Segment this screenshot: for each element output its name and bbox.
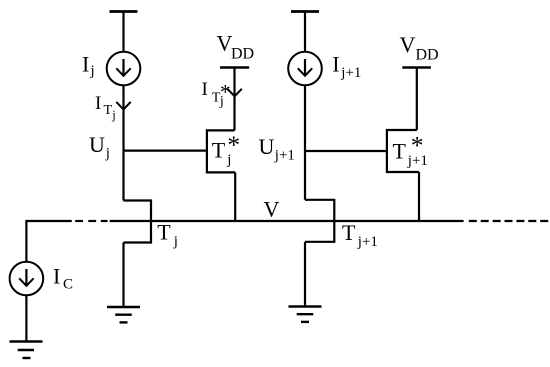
svg-text:U: U	[89, 132, 105, 157]
svg-text:DD: DD	[416, 47, 439, 64]
svg-text:T: T	[212, 138, 226, 163]
label I_j	[82, 52, 95, 80]
bus wire node V (main solid segment)	[110, 220, 464, 222]
wire: bus V down to I_C	[25, 220, 27, 262]
ground (under T_j+1)	[289, 307, 322, 322]
current arrow I_Tj*	[227, 89, 241, 97]
label T_j	[157, 220, 178, 250]
svg-text:j: j	[111, 108, 115, 122]
transistor T_j+1	[305, 200, 334, 242]
svg-text:T: T	[157, 220, 171, 245]
current source I_j+1	[288, 52, 322, 86]
label I_C	[53, 264, 73, 293]
svg-text:j+1: j+1	[357, 234, 378, 250]
svg-text:T: T	[104, 103, 113, 118]
svg-text:I: I	[332, 52, 339, 77]
transistor T_j+1*	[387, 130, 419, 172]
current arrow I_Tj	[116, 102, 130, 110]
wire: T_j+1* source to bus V	[418, 172, 420, 221]
svg-text:I: I	[82, 52, 89, 77]
svg-text:I: I	[95, 93, 101, 114]
node label U_j	[89, 132, 110, 162]
svg-text:V: V	[400, 32, 416, 57]
wire: T_j+1 source to ground	[304, 242, 306, 307]
wire: terminal to I_j+1	[304, 12, 306, 52]
bus wire node V (right dashed segment)	[469, 220, 548, 222]
power rail V_DD (left)	[220, 66, 249, 69]
svg-text:T: T	[393, 139, 407, 164]
label I_j+1	[332, 52, 361, 82]
wire: I_j to T_j drain (through node U_j)	[122, 85, 124, 200]
svg-text:I: I	[202, 79, 208, 100]
label V_DD (left)	[217, 31, 255, 63]
svg-text:j+1: j+1	[407, 153, 428, 169]
svg-text:C: C	[63, 277, 73, 293]
current source I_C	[10, 262, 44, 296]
wire: V_DD rail to T_j+1* drain	[416, 68, 418, 131]
supply terminal (top of I_j+1 branch)	[291, 10, 319, 13]
wire: I_C to ground	[25, 295, 27, 341]
wire: node U_j+1 to T_j+1* gate	[305, 150, 387, 152]
svg-text:j+1: j+1	[274, 148, 295, 164]
wire: T_j source to ground	[122, 243, 124, 308]
svg-text:j: j	[219, 94, 224, 109]
bus wire node V (left dashed segments)	[75, 220, 107, 222]
label T_j+1*	[393, 131, 428, 169]
ground (under T_j)	[107, 307, 140, 322]
wire: V_DD rail to T_j* drain	[233, 68, 235, 131]
svg-text:I: I	[53, 264, 60, 289]
svg-text:T: T	[342, 220, 356, 245]
supply terminal (top of I_j branch)	[110, 10, 138, 13]
ground (under I_C)	[10, 342, 43, 359]
transistor T_j*	[207, 130, 235, 172]
svg-text:DD: DD	[231, 46, 254, 63]
wire: terminal to I_j	[122, 12, 124, 52]
svg-text:j: j	[226, 152, 231, 168]
label T_j*	[212, 130, 240, 168]
label T_j+1	[342, 220, 378, 250]
svg-text:j: j	[173, 234, 178, 250]
bus wire node V (solid left segment)	[26, 220, 71, 222]
svg-text:U: U	[259, 134, 275, 159]
label V_DD (right)	[400, 32, 439, 64]
power rail V_DD (right)	[402, 66, 431, 69]
svg-text:j+1: j+1	[340, 65, 361, 81]
node label U_j+1	[259, 134, 295, 164]
svg-text:j: j	[90, 63, 95, 79]
svg-text:j: j	[105, 146, 110, 162]
label I_Tj*	[202, 79, 231, 109]
wire: T_j* source to bus V	[234, 172, 236, 221]
svg-text:V: V	[264, 197, 280, 222]
wire: I_j+1 to T_j+1 drain (through node U_j+1)	[304, 85, 306, 200]
current source I_j	[107, 52, 141, 86]
label I_Tj	[95, 93, 116, 122]
wire: node U_j to T_j* gate	[124, 150, 207, 152]
transistor T_j	[124, 201, 152, 243]
